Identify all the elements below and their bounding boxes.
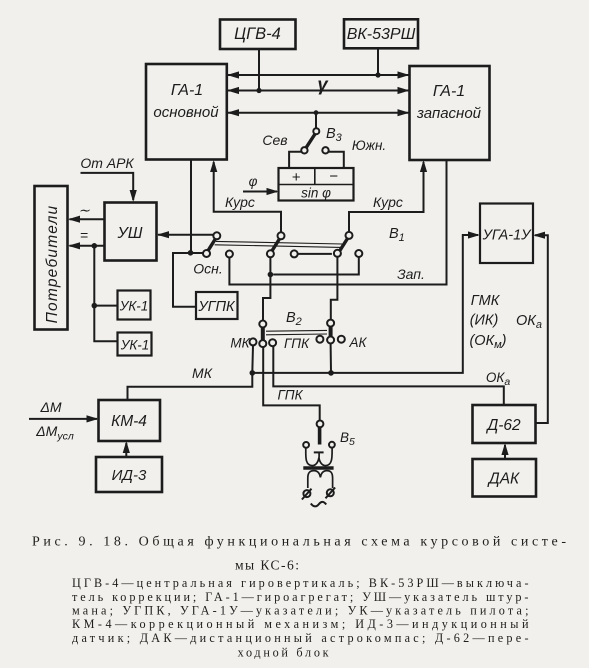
- svg-text:sin φ: sin φ: [301, 186, 331, 201]
- svg-text:Зап.: Зап.: [397, 266, 425, 282]
- switch В2 gang bar: [266, 330, 327, 334]
- svg-text:Д-62: Д-62: [485, 417, 521, 434]
- wire ГА-1 основной down to В1: [190, 160, 192, 253]
- svg-text:УГПК: УГПК: [197, 299, 236, 315]
- svg-text:Курс: Курс: [225, 194, 255, 210]
- svg-text:ГА-1: ГА-1: [171, 82, 203, 99]
- wire junction to УГПК: [173, 253, 196, 307]
- junction dot ВК-53РШ stub on bus 1: [375, 72, 380, 77]
- switch В1 section 1: [203, 232, 220, 257]
- svg-text:ЦГВ-4—центральная гировертикал: ЦГВ-4—центральная гировертикаль; ВК-53РШ…: [72, 576, 529, 590]
- switch В1 section 2: [267, 232, 285, 257]
- transformer secondary winding: [308, 471, 333, 488]
- svg-text:ОКа: ОКа: [516, 313, 542, 331]
- box ГА-1 основной (U3): [146, 64, 227, 160]
- svg-text:Потребители: Потребители: [44, 205, 61, 324]
- svg-text:КМ-4—коррекционный механизм; И: КМ-4—коррекционный механизм; ИД-3—индукц…: [72, 617, 529, 631]
- switch В2 pole 1: [250, 321, 277, 348]
- svg-text:Рис. 9. 18. Общая функциональн: Рис. 9. 18. Общая функциональная схема к…: [32, 535, 566, 550]
- svg-text:ГМК: ГМК: [471, 293, 501, 309]
- wire ГПК: В2 pole1 wiper down to В5: [263, 347, 320, 420]
- svg-text:Сев: Сев: [262, 132, 287, 148]
- box УГА-1У: [480, 204, 533, 264]
- wire ΔМ input arrow into КМ-4: [29, 399, 99, 443]
- wire УШ to Потребители (~ line): [68, 202, 105, 223]
- junction dot at УК-1 #1 branch: [92, 303, 98, 309]
- svg-text:ходной блок: ходной блок: [238, 646, 329, 660]
- svg-text:Курс: Курс: [373, 194, 403, 210]
- svg-text:ГПК: ГПК: [284, 336, 310, 351]
- box ЦГВ-4 (U1): [220, 20, 296, 50]
- В1 spare contact circles: [226, 250, 362, 258]
- svg-text:АК: АК: [349, 335, 368, 350]
- box ИД-3: [96, 457, 162, 492]
- svg-text:мана; УГПК, УГА-1У—указатели;: мана; УГПК, УГА-1У—указатели; УК—указате…: [72, 604, 528, 618]
- wire bus line 2 between ГА-1 boxes (double arrow), label γ: [227, 74, 410, 95]
- svg-text:УШ: УШ: [117, 225, 143, 242]
- svg-text:МК: МК: [192, 365, 213, 381]
- svg-text:Осн.: Осн.: [193, 261, 222, 277]
- wire В1 sec3 contact down to В2 pole 2: [331, 257, 338, 320]
- svg-text:φ: φ: [249, 174, 258, 189]
- box УГПК: [196, 292, 238, 319]
- svg-text:ГА-1: ГА-1: [433, 83, 465, 100]
- box ГА-1 запасной (U4): [410, 66, 490, 160]
- wire φ input arrow into sin φ box: [243, 174, 279, 195]
- svg-text:В5: В5: [340, 430, 355, 448]
- svg-text:В2: В2: [286, 310, 302, 328]
- svg-text:ΔМусл: ΔМусл: [35, 423, 74, 443]
- wire МК contact down with branches to ГМК line and КМ-4: [128, 345, 254, 400]
- svg-text:+: +: [292, 169, 301, 186]
- wire УШ to Потребители (= line): [68, 227, 105, 249]
- svg-text:ВК-53РШ: ВК-53РШ: [347, 26, 416, 43]
- box УШ: [105, 203, 157, 261]
- junction dot on = line: [92, 243, 98, 249]
- box КМ-4: [99, 400, 161, 441]
- wire ВК-53РШ to bus 1: [377, 48, 379, 75]
- box Потребители: [35, 186, 68, 330]
- svg-text:=: =: [80, 227, 88, 243]
- svg-text:γ: γ: [317, 74, 329, 95]
- svg-text:УК-1: УК-1: [120, 338, 150, 353]
- wire От АРК input arrow into УШ: [80, 155, 136, 202]
- junction dot В1 left at ГА-1 основной feed: [188, 250, 194, 256]
- svg-text:УК-1: УК-1: [119, 299, 149, 314]
- svg-text:тель коррекции; ГА-1—гироагрег: тель коррекции; ГА-1—гироагрегат; УШ—ука…: [72, 590, 528, 604]
- wire Курс left (В1 middle contact up to ГА-1 основной): [210, 160, 281, 232]
- junction dot on В2 left feed: [268, 272, 274, 278]
- wire В1 sec2/sec3 cross link (spare to lever): [298, 253, 332, 255]
- svg-text:запасной: запасной: [416, 105, 482, 122]
- switch В1 section 3: [334, 232, 353, 257]
- wire bus line 3 between ГА-1 boxes (double arrow): [227, 109, 410, 116]
- svg-text:ДАК: ДАК: [487, 471, 520, 488]
- wire ИД-3 arrow up into КМ-4: [123, 441, 130, 457]
- svg-text:(ОКм): (ОКм): [469, 333, 506, 351]
- svg-text:ГПК: ГПК: [277, 388, 303, 403]
- svg-text:ЦГВ-4: ЦГВ-4: [234, 25, 281, 43]
- wire bus 3 to switch В3: [315, 113, 317, 131]
- svg-text:∼: ∼: [78, 202, 90, 218]
- switch В5 contact: [314, 421, 324, 458]
- box УК-1 #2: [118, 333, 152, 356]
- svg-text:(ИК): (ИК): [470, 313, 499, 329]
- junction dot pole2/ГМК: [328, 370, 334, 376]
- transformer core: [303, 466, 333, 469]
- svg-text:УГА-1У: УГА-1У: [482, 228, 533, 244]
- wire ДАК arrow up into Д-62: [501, 443, 508, 459]
- wire Курс right (В1 right contact up to ГА-1 запасной): [349, 160, 427, 232]
- wire down to УК-1 boxes: [94, 246, 117, 341]
- wire Зап. (ГА-1 запасной down to В1 second contact): [229, 160, 446, 285]
- switch В2 pole 2: [316, 320, 344, 344]
- box sin φ corrector: [279, 168, 354, 201]
- wire В1 sec3 spare down-left link to В2 feed: [273, 257, 359, 275]
- svg-text:ОКа: ОКа: [486, 370, 510, 388]
- switch В1 gang bar: [215, 241, 343, 247]
- junction dot МК/ГМК: [250, 370, 256, 376]
- junction dot ЦГВ-4 stub on bus 2: [256, 88, 261, 93]
- transformer output terminals: [302, 488, 335, 507]
- transformer Тр primary contacts: [303, 442, 335, 448]
- svg-text:мы КС-6:: мы КС-6:: [235, 558, 299, 573]
- box ДАК: [473, 459, 537, 497]
- svg-text:ИД-3: ИД-3: [112, 467, 147, 484]
- svg-text:В1: В1: [389, 226, 405, 244]
- svg-text:Южн.: Южн.: [352, 138, 386, 153]
- svg-text:−: −: [329, 168, 338, 185]
- wire ОКа: В2 contact to Д-62: [273, 346, 510, 405]
- transformer primary winding: [306, 448, 332, 466]
- wire ЦГВ-4 to bus 2: [258, 49, 260, 91]
- svg-text:датчик; ДАК—дистанционный астр: датчик; ДАК—дистанционный астрокомпас; Д…: [72, 631, 529, 645]
- box ВК-53РШ (U2): [344, 19, 418, 48]
- box Д-62: [473, 405, 536, 443]
- svg-text:основной: основной: [153, 104, 219, 121]
- svg-text:От АРК: От АРК: [80, 155, 134, 171]
- wire В2 pole 2 down to ГМК line: [330, 344, 332, 373]
- wire В1 sec1 contact to junction: [191, 252, 204, 254]
- wire ГМК line to УГА-1У (left input arrow): [252, 231, 480, 373]
- box УК-1 #1: [118, 291, 151, 320]
- svg-text:В3: В3: [326, 126, 343, 144]
- junction dot В3 stub on bus 3: [314, 110, 319, 115]
- wire Д-62 to УГА-1У right input arrow: [533, 232, 548, 423]
- svg-text:МК: МК: [230, 336, 250, 351]
- switch В3 (Сев/Южн): [289, 128, 344, 168]
- wire bus line 1 between ГА-1 boxes (double arrow): [227, 71, 410, 78]
- svg-text:КМ-4: КМ-4: [111, 413, 147, 430]
- wire В1 sec2 contact down to В2 pole 1: [263, 257, 270, 320]
- wire arrow В1 to УШ: [157, 231, 213, 238]
- svg-text:ΔМ: ΔМ: [39, 399, 61, 415]
